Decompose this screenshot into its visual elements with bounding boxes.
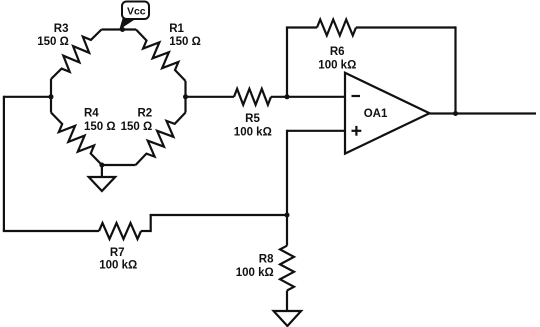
op-amp plus (non-inverting) marker <box>352 130 362 132</box>
node: bridge left <box>49 94 54 99</box>
resistor R5 <box>234 89 272 139</box>
node: bridge bottom <box>99 163 104 168</box>
wire: left rail vertical <box>3 96 5 231</box>
wire: non-inverting input to node B corner <box>287 130 346 132</box>
svg-text:R8: R8 <box>259 254 274 266</box>
svg-text:100 kΩ: 100 kΩ <box>236 267 274 279</box>
wire: R6 to feedback right corner <box>356 26 456 28</box>
svg-text:R5: R5 <box>245 113 260 125</box>
resistor R8 <box>236 246 294 291</box>
svg-text:R4: R4 <box>84 108 99 120</box>
svg-text:R7: R7 <box>110 247 125 259</box>
wire: corner down to node B <box>286 130 288 215</box>
wire: bridge left node to left rail <box>4 96 51 98</box>
svg-text:150 Ω: 150 Ω <box>169 36 201 48</box>
svg-text:R1: R1 <box>169 23 184 35</box>
resistor R3 (bridge top-left arm) <box>37 23 101 79</box>
wire: bridge left flat segment <box>50 79 52 113</box>
wire: bridge right flat segment <box>184 81 186 113</box>
Vcc callout pointer (filled wedge) <box>119 18 135 30</box>
wire: jog to node B <box>150 214 287 216</box>
svg-text:150 Ω: 150 Ω <box>37 36 69 48</box>
wire: bridge bottom flat segment <box>102 164 136 166</box>
wire: bridge top flat segment <box>102 28 137 30</box>
wire: R5 to op-amp inverting input <box>271 96 346 98</box>
node: bridge top (Vcc) <box>120 27 125 32</box>
svg-text:Vcc: Vcc <box>127 6 146 18</box>
svg-text:100 kΩ: 100 kΩ <box>99 260 137 272</box>
resistor R1 (bridge top-right arm) <box>136 23 201 81</box>
node B: R7/R8/non-inverting junction <box>285 213 290 218</box>
op-amp OA1 <box>345 73 430 154</box>
node A: inverting input / feedback junction <box>285 94 290 99</box>
svg-text:R3: R3 <box>54 23 69 35</box>
wire: bridge bottom node to ground <box>101 165 103 177</box>
wire: R8 to ground <box>286 291 288 312</box>
svg-text:R6: R6 <box>330 46 345 58</box>
svg-text:150 Ω: 150 Ω <box>84 121 116 133</box>
resistor R6 (feedback) <box>317 20 356 72</box>
resistor R7 <box>99 223 141 272</box>
resistor R2 (bridge bottom-right arm) <box>121 108 186 166</box>
svg-text:OA1: OA1 <box>364 108 388 120</box>
resistor R4 (bridge bottom-left arm) <box>51 108 116 166</box>
wire: bottom rail to R7 <box>3 230 99 232</box>
node: bridge right <box>183 94 188 99</box>
wire: op-amp output <box>430 112 537 114</box>
ground (below R8) <box>274 311 302 326</box>
wire: jog vertical up <box>150 215 152 232</box>
wire: R7 to jog corner <box>141 230 151 232</box>
op-amp minus (inverting) marker <box>352 95 361 97</box>
wire: node B down to R8 <box>286 215 288 246</box>
wire: bridge right node to R5 <box>186 96 235 98</box>
svg-text:100 kΩ: 100 kΩ <box>318 60 356 72</box>
wire: feedback top-left to R6 <box>286 26 317 28</box>
ground (below bridge) <box>89 177 116 191</box>
svg-text:150 Ω: 150 Ω <box>121 121 153 133</box>
svg-text:100 kΩ: 100 kΩ <box>234 127 272 139</box>
svg-text:R2: R2 <box>137 108 152 120</box>
wire: node A up to feedback <box>286 28 288 98</box>
wire: feedback right vertical down to output <box>454 26 456 113</box>
Vcc supply label <box>122 2 149 20</box>
node: output / feedback junction <box>453 111 458 116</box>
